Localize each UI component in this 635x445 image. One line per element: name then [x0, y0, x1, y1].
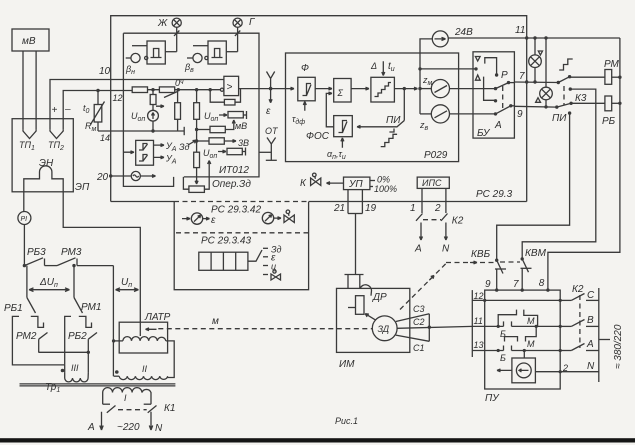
svg-text:21: 21: [333, 203, 345, 214]
svg-text:20: 20: [96, 172, 109, 183]
winding III: [65, 352, 89, 382]
node ПУ top 8: [546, 288, 549, 291]
svg-text:РС 29.3.42: РС 29.3.42: [211, 205, 261, 216]
node ПУ top 9: [495, 288, 498, 291]
heater ЭН: [24, 166, 63, 192]
svg-text:м: м: [212, 316, 219, 327]
А bracket: [484, 77, 495, 101]
node after РМ3: [72, 264, 75, 267]
amplifier УА box: [123, 140, 153, 165]
svg-text:ЭН: ЭН: [39, 158, 54, 169]
wire 20: [111, 175, 132, 177]
node: [525, 36, 528, 39]
small arrow: [156, 105, 164, 108]
node on wire 12 at Rм: [96, 89, 99, 92]
mark delta: [475, 75, 480, 80]
dashed mech line ЛАТР to ЗД: [158, 328, 372, 330]
ПИ lower alt contact to КВБ line: [497, 111, 572, 260]
phase С: [560, 294, 599, 301]
register output link: [248, 250, 262, 261]
svg-text:ЛАТР: ЛАТР: [144, 312, 171, 323]
αп,τи input: [327, 138, 346, 161]
wire ЭП down-right: [63, 192, 140, 322]
mid Г bracket: [65, 316, 71, 365]
register 4-cell: [199, 252, 248, 270]
wire down left branch: [26, 266, 28, 298]
ФОС to Σ feedback: [326, 92, 333, 127]
ДР potentiometer: [348, 285, 372, 315]
winding II: [114, 376, 168, 379]
Δ and tи inputs: [370, 61, 395, 76]
supply arrow А: [100, 412, 103, 430]
setpoint zм: [420, 80, 496, 98]
row C resistor -> 3В: [195, 138, 236, 144]
wire ЭН left to Р1: [23, 192, 25, 212]
gauge ε: [182, 213, 210, 224]
contact dot А-pos: [494, 99, 497, 102]
svg-text:9: 9: [485, 279, 491, 290]
lamp Г: [233, 18, 242, 52]
gauge valve: [262, 212, 281, 223]
node: [87, 351, 90, 354]
twin leads into ИМ: [348, 275, 360, 289]
svg-text:ИПС: ИПС: [422, 178, 442, 188]
box Р029: [286, 53, 459, 162]
left terminal bus: [471, 290, 473, 357]
svg-text:24В: 24В: [454, 27, 473, 38]
svg-text:РБ3: РБ3: [27, 247, 46, 258]
svg-text:С3: С3: [413, 304, 425, 314]
svg-text:УП: УП: [348, 179, 363, 190]
lamp upper (∇): [529, 38, 542, 82]
mark nabla: [538, 51, 542, 55]
quantizer block: [371, 77, 395, 102]
wire 24В to right bus: [448, 37, 620, 39]
svg-text:0%: 0%: [377, 175, 390, 185]
box ИТ012: [123, 33, 259, 186]
contact РБ2: [88, 333, 97, 353]
svg-text:К2: К2: [572, 284, 584, 295]
С2 line: [397, 326, 472, 328]
thermocouple ТП2: [50, 129, 63, 138]
24В source: [432, 31, 448, 47]
bottom border bar: [0, 438, 635, 442]
dashed link К2: [423, 219, 441, 221]
dashed link ПИ: [563, 86, 565, 105]
svg-text:ε: ε: [211, 215, 216, 226]
svg-text:БУ: БУ: [477, 128, 491, 139]
wiper arrow ЗД to ДР: [365, 314, 375, 320]
svg-text:ПИ: ПИ: [386, 115, 401, 126]
Опер.Зд potentiometer: [183, 161, 210, 193]
ε down arrow: [269, 89, 272, 103]
output ε: [263, 256, 268, 258]
svg-text:1: 1: [410, 203, 416, 214]
svg-text:ИМ: ИМ: [339, 359, 355, 370]
generator circle on wire 20: [131, 171, 155, 180]
contact РБ3: [24, 258, 57, 266]
staircase symbol under ПИ: [381, 129, 397, 147]
svg-text:Зд: Зд: [179, 142, 190, 152]
motor ЗД: [372, 316, 397, 341]
svg-text:РМ2: РМ2: [16, 331, 37, 342]
lamp Ж: [172, 18, 181, 52]
node lamp2: [544, 105, 547, 108]
device to N row: [535, 371, 560, 373]
svg-text:мВ: мВ: [22, 36, 36, 47]
polarity dot III: [61, 369, 65, 373]
box УП: [344, 177, 370, 190]
К2 contact N: [441, 214, 448, 241]
box РС 29.3.42 / РС 29.3.43: [174, 202, 308, 290]
svg-text:III: III: [71, 363, 79, 373]
box ПУ: [485, 290, 561, 389]
row B resistor with up arrow: [195, 120, 235, 133]
svg-text:РМ3: РМ3: [61, 247, 82, 258]
output Зд: [263, 247, 268, 249]
svg-text:М: М: [527, 339, 535, 349]
resistor above Uоп source: [150, 90, 156, 111]
node: [618, 76, 621, 79]
svg-text:>: >: [227, 82, 233, 93]
svg-text:II: II: [142, 364, 148, 374]
УП down wire: [355, 214, 357, 275]
node: [151, 88, 154, 91]
wire 9: [514, 105, 556, 108]
svg-text:Ж: Ж: [157, 18, 168, 29]
supply tap: [599, 339, 610, 341]
node: [23, 264, 26, 267]
С1 line: [396, 335, 430, 341]
output arrows УА: [154, 144, 165, 147]
svg-text:14: 14: [100, 133, 110, 143]
svg-text:А: А: [87, 422, 95, 433]
wire 12 (-): [63, 91, 132, 130]
svg-text:Ф: Ф: [301, 63, 309, 74]
resistor R6 vertical: [194, 152, 200, 177]
dashed link К2 phases: [579, 295, 581, 348]
output Ц: [263, 265, 268, 267]
node: [533, 36, 536, 39]
terminal 11 row with Б contact: [472, 321, 560, 328]
svg-text:12: 12: [474, 291, 484, 301]
24В to z bus: [420, 39, 432, 114]
svg-text:ПУ: ПУ: [485, 393, 500, 404]
arrow УП to К: [327, 182, 344, 185]
ЛАТР box: [119, 322, 167, 353]
upper М bridge: [498, 310, 537, 327]
svg-text:РБ1: РБ1: [4, 303, 23, 314]
node: [195, 88, 198, 91]
svg-text:N: N: [155, 423, 163, 434]
svg-text:А: А: [586, 339, 594, 350]
ИПС terminal 1: [421, 188, 423, 213]
box БУ: [473, 52, 514, 138]
wire down mid branch: [73, 266, 75, 298]
svg-text:ИТ012: ИТ012: [219, 165, 249, 176]
svg-text:К2: К2: [452, 216, 464, 227]
svg-text:Опер.Зд: Опер.Зд: [212, 179, 251, 190]
node ПУ top 7: [521, 288, 524, 291]
left Г bracket: [12, 316, 64, 365]
block Σ: [334, 79, 351, 103]
wire Р1 down: [23, 225, 25, 266]
wire 10 (+): [50, 80, 224, 130]
ΔUп double arrow: [29, 288, 70, 292]
svg-text:12: 12: [113, 93, 123, 103]
svg-text:Р029: Р029: [424, 150, 448, 161]
svg-text:Δ: Δ: [370, 61, 377, 71]
contact РМ2: [39, 333, 48, 353]
dashed mech ЗД to КВ switches: [400, 261, 494, 309]
svg-text:РМ: РМ: [604, 59, 620, 70]
wire РБ to bus: [612, 102, 620, 104]
svg-text:ДР: ДР: [372, 292, 387, 303]
svg-text:А: А: [414, 244, 422, 255]
resistor R1: [132, 87, 147, 93]
svg-text:Рис.1: Рис.1: [335, 416, 358, 426]
svg-text:ЭП: ЭП: [75, 182, 90, 193]
valve symbol: [284, 210, 294, 223]
ПИ upper blade: [557, 75, 572, 84]
svg-text:13: 13: [474, 340, 484, 350]
ПИ lower blade: [555, 102, 573, 109]
node: [618, 102, 621, 105]
svg-text:РС 29.3.43: РС 29.3.43: [201, 236, 251, 247]
svg-text:КВБ: КВБ: [471, 249, 491, 260]
trigger βн (schmitt with input circle): [126, 41, 177, 64]
contact dot Р: [495, 73, 498, 76]
phase N row: [559, 370, 599, 373]
ЛАТР coil: [123, 337, 166, 341]
row A: Uоп -> resistor -> мВ: [219, 111, 247, 119]
node: [112, 339, 115, 342]
box ТП (thermoblock): [12, 119, 73, 192]
ИПС terminal 2: [445, 188, 447, 213]
output valve: [263, 270, 281, 280]
comparator: [220, 76, 238, 95]
wire 14: [98, 130, 184, 132]
КВМ switch: [521, 257, 532, 290]
node feedback: [403, 87, 406, 90]
svg-text:–: –: [64, 104, 71, 115]
svg-text:К3: К3: [575, 93, 587, 104]
node: [418, 67, 421, 70]
setpoint zв: [420, 105, 496, 123]
svg-text:ПИ: ПИ: [552, 113, 567, 124]
resistor R4 vertical: [194, 90, 200, 153]
svg-text:С1: С1: [413, 343, 425, 353]
svg-text:≈ 380/220: ≈ 380/220: [613, 324, 624, 369]
instrument Р1: [18, 212, 31, 225]
svg-text:В: В: [587, 315, 594, 326]
contact РБ1: [27, 298, 44, 328]
svg-text:РБ2: РБ2: [68, 331, 87, 342]
phase А: [559, 344, 599, 353]
svg-text:РМ1: РМ1: [81, 302, 101, 313]
svg-text:А: А: [494, 120, 502, 131]
wire РМ3 to ЛАТР branch: [112, 266, 114, 377]
0% 100% marks: [370, 175, 397, 195]
resistor R3 vertical: [175, 90, 181, 131]
comparator feedback resistor: [210, 89, 240, 105]
svg-text:11: 11: [515, 25, 525, 36]
box ИПС: [417, 177, 449, 188]
svg-text:~220: ~220: [117, 422, 140, 433]
comparator output wire to ε node: [239, 88, 271, 90]
phase bus: [598, 288, 600, 382]
lower М bridge: [505, 326, 537, 341]
contact РМ3: [57, 258, 113, 266]
relay РМ: [605, 70, 612, 85]
block Ф: [298, 77, 315, 101]
node: [209, 88, 212, 91]
ЛАТР wiper: [140, 322, 156, 336]
terminal 13 row with Б contact: [472, 346, 560, 353]
К1 contact right: [148, 406, 157, 413]
wire bus to БУ upper: [420, 68, 476, 70]
svg-text:11: 11: [474, 316, 483, 326]
svg-text:ЗД: ЗД: [378, 324, 390, 334]
svg-text:7: 7: [513, 279, 519, 290]
node 20: [109, 174, 112, 177]
svg-text:РI: РI: [21, 216, 28, 223]
К1 contact left: [107, 406, 116, 413]
dashed mech link КВБ-КВМ: [500, 261, 520, 263]
wire 12 run inside box: [132, 89, 220, 91]
mark delta: [536, 98, 541, 103]
node lamp1: [533, 80, 536, 83]
svg-text:ФОС: ФОС: [306, 131, 330, 142]
svg-text:КВМ: КВМ: [525, 248, 547, 259]
svg-text:N: N: [442, 244, 450, 255]
УП terminals 21/19: [348, 190, 362, 214]
svg-text:С: С: [587, 290, 595, 301]
P bracket: [485, 58, 497, 75]
row D: Uоп -> resistor: [218, 148, 246, 156]
svg-text:К1: К1: [164, 403, 175, 414]
trigger βв: [187, 41, 238, 64]
dashed link БУ: [502, 86, 504, 110]
КВБ switch: [495, 259, 506, 291]
ЛАТР coil left to bus: [114, 340, 123, 342]
connector bar: [345, 274, 364, 276]
τдф arrow: [303, 102, 306, 111]
wire РМ: [570, 76, 605, 78]
svg-text:Р: Р: [501, 70, 508, 81]
svg-text:Б: Б: [500, 353, 506, 363]
polarity dot II: [115, 370, 119, 374]
upper blade: [494, 81, 515, 90]
core lines: [20, 384, 176, 386]
box мВ: [12, 29, 49, 51]
С3 line: [396, 314, 430, 322]
thermocouple ТП1: [23, 129, 36, 138]
ПИ feedback switch: [357, 89, 404, 129]
resistor R2 with tap: [159, 87, 177, 98]
svg-text:мВ: мВ: [235, 121, 247, 131]
svg-text:2: 2: [434, 203, 441, 214]
motion arrow: [497, 369, 512, 372]
ε wire into Р029: [271, 87, 294, 90]
ОТ antenna: [259, 138, 277, 161]
svg-text:7: 7: [519, 71, 525, 82]
Uп double arrow: [116, 288, 139, 292]
supply arrow N: [149, 412, 152, 430]
node entry: [474, 67, 477, 70]
С bus: [428, 314, 430, 342]
node: [544, 36, 547, 39]
node on wire 14: [151, 129, 154, 132]
crossing ticks lamp wires: [174, 31, 240, 36]
Uоп current source: [148, 110, 159, 131]
node С2: [428, 326, 431, 329]
wire РМ to bus: [612, 76, 620, 78]
right return bus: [548, 38, 620, 290]
contact РМ1: [74, 298, 92, 328]
wire мВ to ТП1 right: [35, 51, 37, 129]
wire Ф to Σ: [315, 87, 332, 90]
frame: РС 29.3 outer box: [111, 16, 527, 202]
svg-text:9: 9: [517, 109, 523, 120]
lower blade: [494, 104, 515, 116]
winding I: [103, 388, 151, 405]
node: [525, 80, 528, 83]
svg-text:+: +: [52, 105, 58, 116]
quantizer output to z bus: [394, 87, 417, 90]
valve К: [300, 173, 321, 189]
pulse symbol: [559, 59, 573, 70]
wire Σ to quantizer: [351, 87, 369, 90]
box ИМ: [337, 288, 410, 352]
svg-text:19: 19: [365, 203, 377, 214]
svg-text:М: М: [527, 316, 535, 326]
terminal 12 row: [472, 299, 562, 302]
svg-text:10: 10: [99, 66, 111, 77]
phase В: [559, 320, 599, 329]
К2 contact А: [416, 214, 423, 241]
node: [177, 88, 180, 91]
relay РБ: [605, 96, 612, 111]
ПИ upper alt contact to КВМ line: [522, 87, 596, 259]
svg-text:3В: 3В: [238, 138, 249, 148]
svg-text:N: N: [587, 361, 595, 372]
К1 dashes: [118, 409, 147, 411]
node: [418, 87, 421, 90]
block ФОС: [334, 116, 353, 137]
wire К3 to РБ: [571, 102, 605, 104]
svg-text:РС 29.3: РС 29.3: [476, 189, 513, 200]
wire мВ to ТП1 left: [22, 51, 24, 129]
svg-text:100%: 100%: [374, 184, 397, 194]
thermistor Rм (t0): [91, 91, 105, 132]
node ε: [269, 87, 273, 91]
wire 7: [514, 81, 558, 84]
terminal tick 14: [183, 127, 185, 135]
wire РМ2-РБ2 bottom: [39, 351, 89, 353]
lamp lower (Δ): [540, 38, 553, 107]
mark nabla: [475, 57, 480, 62]
svg-text:С2: С2: [413, 317, 425, 327]
svg-text:ОТ: ОТ: [265, 126, 279, 136]
ЛАТР coil right down: [166, 341, 174, 378]
svg-text:8: 8: [539, 278, 545, 289]
brake device: [512, 351, 536, 383]
svg-text:Σ: Σ: [337, 88, 344, 98]
Y symbol over ε node: [267, 72, 275, 89]
svg-text:РБ: РБ: [602, 116, 616, 127]
svg-text:ε: ε: [266, 106, 271, 117]
